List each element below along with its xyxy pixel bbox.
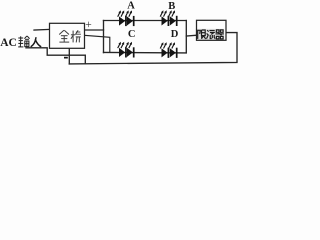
svg-text:B: B xyxy=(168,1,175,12)
svg-text:C: C xyxy=(128,29,136,40)
svg-text:AC: AC xyxy=(0,37,17,49)
svg-text:D: D xyxy=(171,29,179,40)
svg-text:A: A xyxy=(127,1,135,12)
svg-text:+: + xyxy=(85,19,92,31)
